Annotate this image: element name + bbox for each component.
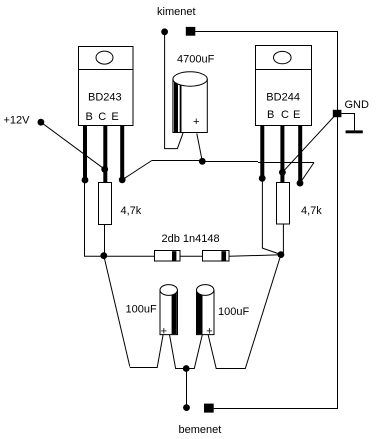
svg-text:E: E — [111, 111, 118, 123]
svg-text:B: B — [267, 109, 274, 121]
svg-text:E: E — [293, 109, 300, 121]
svg-text:4700uF: 4700uF — [177, 54, 215, 66]
svg-text:2db 1n4148: 2db 1n4148 — [162, 233, 220, 245]
svg-text:GND: GND — [345, 99, 370, 111]
svg-text:4,7k: 4,7k — [301, 205, 322, 217]
svg-text:+: + — [206, 325, 212, 337]
svg-text:BD244: BD244 — [266, 92, 300, 104]
svg-text:bemenet: bemenet — [179, 424, 222, 436]
svg-text:+12V: +12V — [4, 115, 31, 127]
svg-text:100uF: 100uF — [218, 306, 249, 318]
svg-text:100uF: 100uF — [126, 304, 157, 316]
svg-text:B: B — [86, 111, 93, 123]
svg-text:4,7k: 4,7k — [121, 205, 142, 217]
svg-text:+: + — [161, 325, 167, 337]
svg-text:+: + — [193, 116, 199, 128]
svg-text:kimenet: kimenet — [157, 6, 196, 18]
svg-text:C: C — [98, 111, 106, 123]
svg-text:C: C — [281, 109, 289, 121]
svg-text:BD243: BD243 — [88, 92, 122, 104]
